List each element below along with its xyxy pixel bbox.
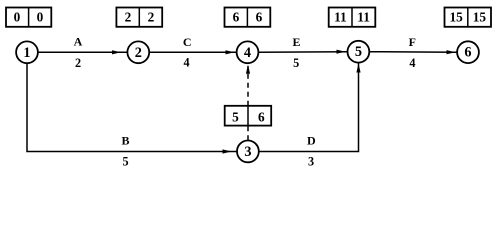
svg-text:4: 4 bbox=[409, 56, 415, 70]
svg-text:5: 5 bbox=[293, 56, 299, 70]
svg-text:5: 5 bbox=[232, 110, 239, 125]
wire D: node3 right then up to node5 bbox=[259, 63, 361, 152]
svg-text:3: 3 bbox=[308, 154, 314, 168]
label activity A bbox=[74, 35, 83, 70]
svg-text:6: 6 bbox=[464, 45, 471, 61]
svg-text:15: 15 bbox=[473, 10, 487, 25]
wire C: node2 to node4 bbox=[150, 50, 237, 54]
time box over node3: 5|6 bbox=[225, 106, 272, 126]
svg-text:6: 6 bbox=[256, 10, 263, 25]
node 6 bbox=[457, 41, 479, 63]
svg-text:11: 11 bbox=[357, 10, 370, 25]
svg-text:A: A bbox=[74, 35, 83, 49]
wire B: node1 down then right to node3 bbox=[27, 64, 237, 154]
dashed dummy wire: node3 up to node4 bbox=[246, 65, 250, 141]
label activity D bbox=[307, 133, 316, 168]
svg-text:B: B bbox=[121, 133, 129, 147]
label activity C bbox=[183, 35, 192, 70]
svg-text:6: 6 bbox=[233, 10, 240, 25]
svg-text:3: 3 bbox=[244, 144, 251, 160]
svg-text:5: 5 bbox=[355, 44, 362, 60]
svg-text:2: 2 bbox=[135, 45, 142, 61]
svg-text:2: 2 bbox=[148, 10, 155, 25]
svg-text:2: 2 bbox=[75, 56, 81, 70]
svg-text:2: 2 bbox=[125, 10, 132, 25]
svg-text:4: 4 bbox=[183, 56, 189, 70]
svg-text:11: 11 bbox=[334, 10, 347, 25]
svg-text:4: 4 bbox=[244, 45, 251, 61]
svg-text:0: 0 bbox=[14, 10, 21, 25]
time box over node1: 0|0 bbox=[6, 8, 51, 27]
node 1 bbox=[16, 41, 38, 63]
wire F: node5 to node6 bbox=[370, 50, 457, 54]
svg-text:E: E bbox=[292, 35, 300, 49]
node 3 bbox=[237, 141, 259, 163]
node 4 bbox=[237, 41, 259, 63]
time box over node4: 6|6 bbox=[225, 8, 271, 27]
svg-text:6: 6 bbox=[258, 110, 265, 125]
node 2 bbox=[127, 41, 149, 63]
node 5 bbox=[348, 41, 370, 63]
svg-text:C: C bbox=[183, 35, 192, 49]
wire E: node4 to node5 bbox=[259, 50, 348, 54]
svg-text:15: 15 bbox=[449, 10, 463, 25]
time box over node2: 2|2 bbox=[116, 8, 162, 27]
label activity E bbox=[292, 35, 300, 70]
svg-text:F: F bbox=[409, 35, 416, 49]
label activity B bbox=[121, 133, 129, 168]
svg-text:5: 5 bbox=[122, 154, 128, 168]
wire A: node1 to node2 bbox=[38, 50, 127, 54]
svg-text:1: 1 bbox=[23, 45, 30, 61]
label activity F bbox=[409, 35, 416, 70]
svg-text:0: 0 bbox=[37, 10, 44, 25]
time box over node6: 15|15 bbox=[445, 8, 492, 27]
time box over node5: 11|11 bbox=[329, 8, 376, 27]
svg-text:D: D bbox=[307, 133, 316, 147]
